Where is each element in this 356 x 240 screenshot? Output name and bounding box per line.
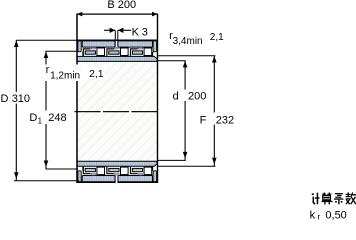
svg-text:D: D [29, 112, 37, 124]
svg-text:248: 248 [48, 112, 66, 124]
svg-text:r: r [46, 64, 50, 76]
svg-text:r: r [318, 212, 321, 221]
svg-text:B: B [107, 0, 114, 11]
svg-text:d: d [173, 90, 179, 102]
svg-text:2,1: 2,1 [89, 68, 104, 80]
svg-text:1,2min: 1,2min [50, 70, 80, 81]
svg-text:k: k [310, 209, 316, 221]
svg-text:F: F [200, 114, 207, 126]
svg-text:310: 310 [12, 93, 30, 105]
svg-text:3: 3 [142, 26, 148, 38]
svg-text:232: 232 [216, 114, 234, 126]
svg-text:3,4min: 3,4min [173, 36, 203, 47]
svg-text:2,1: 2,1 [210, 32, 224, 43]
svg-text:K: K [132, 26, 140, 38]
svg-text:D: D [1, 93, 9, 105]
svg-text:0,50: 0,50 [325, 209, 346, 221]
svg-text:200: 200 [118, 0, 136, 11]
svg-text:1: 1 [38, 117, 43, 126]
svg-text:200: 200 [188, 90, 206, 102]
